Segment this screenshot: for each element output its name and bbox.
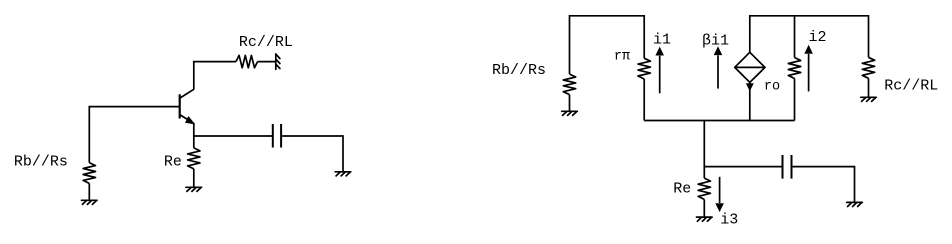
wire: node down to Re xyxy=(193,135,195,148)
transistor Q1 (NPN) xyxy=(180,89,195,124)
capacitor (right circuit bypass) xyxy=(783,155,792,179)
resistor Re (right circuit) xyxy=(698,178,710,199)
wire xyxy=(281,135,343,137)
resistor Re (left circuit) xyxy=(188,148,200,169)
wire xyxy=(868,15,870,57)
resistor rpi xyxy=(638,58,650,79)
svg-text:Rc//RL: Rc//RL xyxy=(884,77,938,94)
wire xyxy=(258,61,276,63)
ground xyxy=(697,217,713,221)
wire xyxy=(569,95,571,112)
wire: node down to Re xyxy=(703,166,705,178)
svg-text:i1: i1 xyxy=(653,32,671,49)
wire: base wire of Q1 xyxy=(89,106,179,108)
wire xyxy=(569,15,571,74)
svg-text:rπ: rπ xyxy=(614,50,630,65)
wire: center drop xyxy=(703,121,705,167)
svg-text:Rc//RL: Rc//RL xyxy=(239,34,293,51)
wire xyxy=(868,78,870,97)
wire xyxy=(703,199,705,217)
resistor ro xyxy=(788,58,800,79)
svg-text:Rb//Rs: Rb//Rs xyxy=(492,62,546,79)
wire: emitter node to capacitor xyxy=(193,135,273,137)
svg-text:βi1: βi1 xyxy=(702,32,729,49)
wire xyxy=(643,15,645,58)
wire: below controlled source xyxy=(749,82,751,120)
ground xyxy=(335,172,351,176)
svg-text:i2: i2 xyxy=(809,29,827,46)
wire xyxy=(643,79,645,121)
svg-text:Rb//Rs: Rb//Rs xyxy=(14,153,68,170)
resistor Rc//RL (right circuit) xyxy=(862,57,874,78)
svg-text:i3: i3 xyxy=(720,212,738,229)
wire: collector top rail xyxy=(193,61,236,63)
capacitor (left circuit bypass) xyxy=(273,124,281,148)
wire xyxy=(88,183,90,200)
current arrow i2 xyxy=(808,54,810,92)
resistor Rb//Rs (right circuit) xyxy=(563,74,575,95)
wire: to top of controlled source xyxy=(749,15,751,52)
wire: down to ground xyxy=(342,135,344,172)
current arrow i3 xyxy=(719,177,721,203)
wire: emitter down to node xyxy=(193,123,195,136)
svg-text:Re: Re xyxy=(673,181,691,198)
resistor Rc//RL (left circuit) xyxy=(236,55,258,67)
wire xyxy=(792,166,855,168)
wire: bottom rail xyxy=(644,120,794,122)
ground (rotated, facing right) xyxy=(276,54,280,70)
svg-text:Re: Re xyxy=(164,153,182,170)
wire: collector up xyxy=(193,62,195,90)
controlled current source beta-i1 (diamond) xyxy=(735,52,765,90)
current arrow i1 xyxy=(659,56,661,94)
wire: input branch vertical xyxy=(88,106,90,163)
wire: top rail right (source to Rc//RL) xyxy=(750,15,869,17)
wire xyxy=(794,15,796,58)
ground xyxy=(861,97,877,101)
current arrow beta-i1 xyxy=(717,55,719,88)
wire xyxy=(794,79,796,121)
wire xyxy=(193,169,195,187)
svg-text:ro: ro xyxy=(764,79,780,94)
ground xyxy=(847,202,863,206)
ground xyxy=(186,187,202,191)
ground xyxy=(562,111,578,115)
ground xyxy=(82,200,98,204)
wire: down to ground xyxy=(854,166,856,203)
wire: node to capacitor xyxy=(704,166,782,168)
wire: top rail left (Rb//Rs to rpi) xyxy=(570,15,645,17)
resistor Rb//Rs (left circuit) xyxy=(83,163,95,184)
